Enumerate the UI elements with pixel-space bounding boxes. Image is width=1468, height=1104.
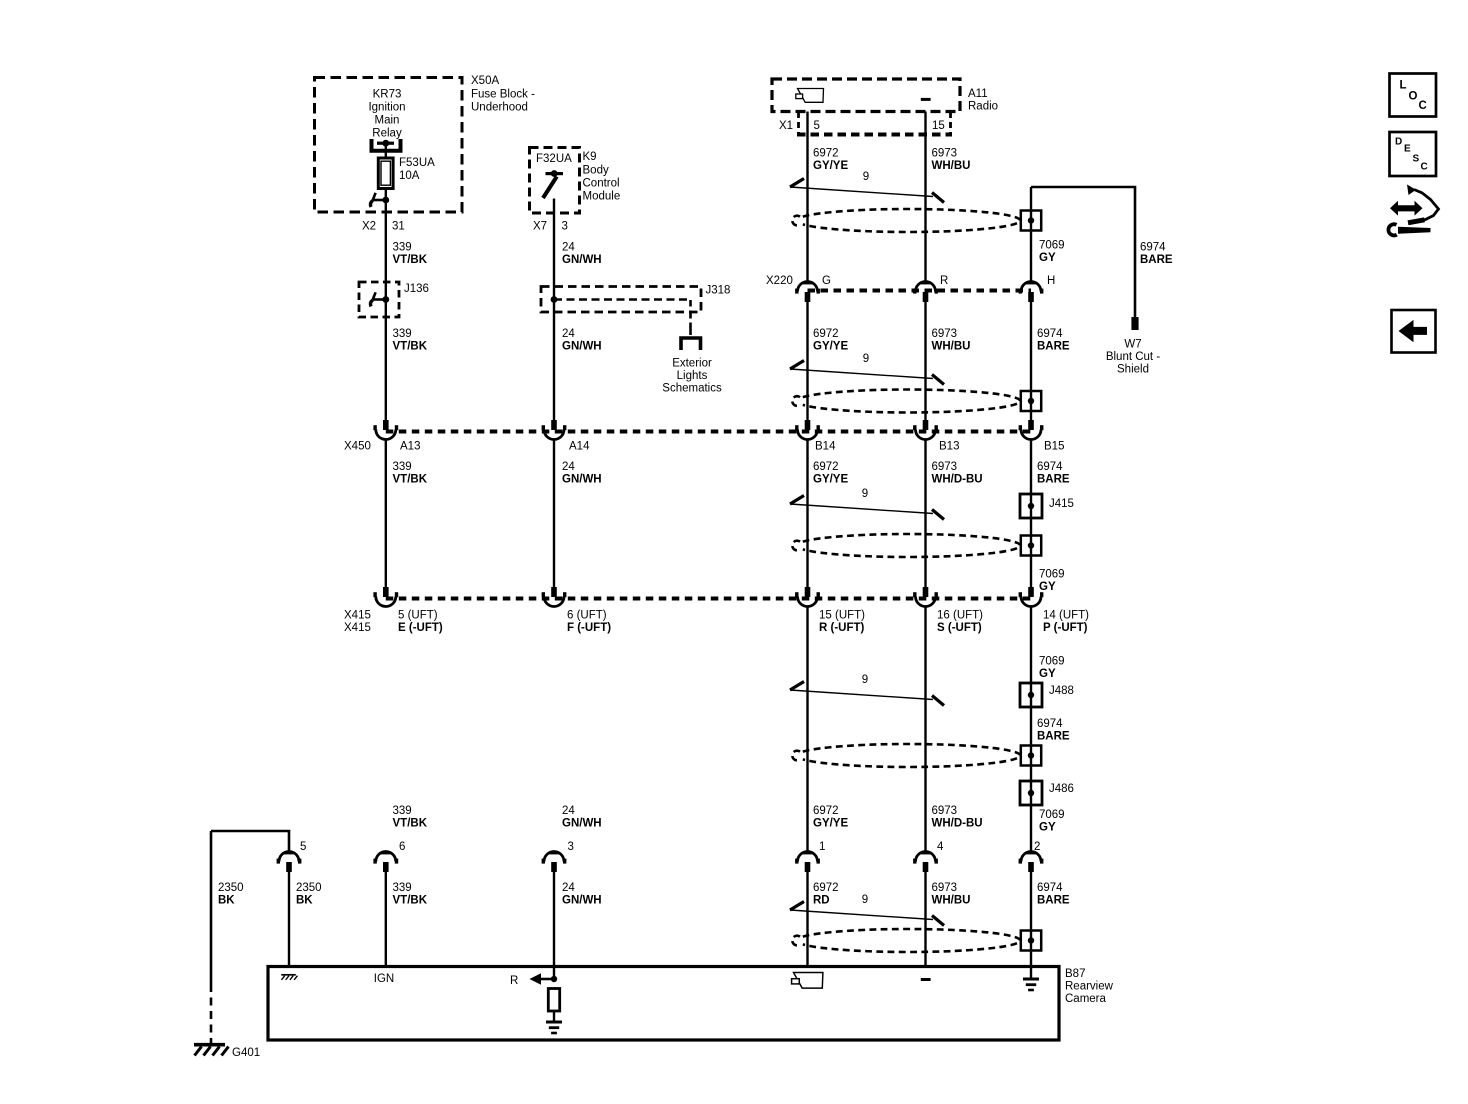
wire label 6974 BARE (below X450): [1037, 461, 1070, 486]
shield drain box 4: [1021, 746, 1041, 766]
splice J136 label: [404, 283, 429, 295]
relay KR73 contact symbol: [372, 139, 401, 151]
svg-text:6974: 6974: [1037, 461, 1063, 473]
pigtail splice symbol below fuse: [370, 193, 385, 207]
svg-text:15: 15: [932, 120, 945, 132]
svg-text:D: D: [1395, 137, 1402, 148]
splice pack J318 label: [706, 285, 731, 297]
svg-text:GY/YE: GY/YE: [813, 341, 848, 353]
wire label 339 VT/BK (upper): [393, 242, 428, 267]
svg-text:J488: J488: [1049, 685, 1074, 697]
svg-text:X220: X220: [766, 275, 793, 287]
svg-text:K9: K9: [583, 151, 597, 163]
splice J136 dashed box: [359, 282, 399, 317]
camera pin 1 label: [819, 841, 825, 853]
twisted pair symbol 2: [790, 361, 944, 385]
svg-text:B87: B87: [1065, 968, 1085, 980]
svg-text:Rearview: Rearview: [1065, 981, 1114, 993]
svg-text:GN/WH: GN/WH: [562, 818, 602, 830]
wire 6972 GY/YE radio to X220: [806, 112, 808, 282]
svg-text:KR73: KR73: [373, 89, 402, 101]
shield drain box 1: [1021, 211, 1041, 231]
twisted pair count label 9 (4): [862, 674, 868, 686]
svg-text:GY: GY: [1039, 252, 1056, 264]
camera pin 5 in-line connector: [277, 852, 302, 873]
svg-text:WH/BU: WH/BU: [932, 160, 971, 172]
svg-text:9: 9: [862, 894, 868, 906]
svg-text:7069: 7069: [1039, 569, 1065, 581]
svg-text:6972: 6972: [813, 328, 839, 340]
svg-text:VT/BK: VT/BK: [393, 341, 428, 353]
svg-text:Shield: Shield: [1117, 364, 1149, 376]
connector X7 pin 3 labels: [533, 221, 568, 233]
svg-text:WH/BU: WH/BU: [932, 341, 971, 353]
sidebar back button: [1392, 310, 1436, 353]
svg-text:VT/BK: VT/BK: [393, 474, 428, 486]
svg-text:WH/D-BU: WH/D-BU: [932, 474, 983, 486]
svg-text:339: 339: [393, 882, 412, 894]
svg-text:24: 24: [562, 242, 575, 254]
rearview camera B87 box: [268, 967, 1059, 1041]
wire 7069 GY / 6974 BARE X415 to camera pin 2: [1030, 607, 1032, 852]
wire 6974 BARE pin 2 to camera: [1030, 872, 1032, 978]
R input arrow: [530, 973, 555, 985]
svg-text:9: 9: [863, 171, 869, 183]
connector X1 dashed box: [797, 112, 952, 135]
svg-text:6973: 6973: [932, 328, 958, 340]
camera display icon in radio: [796, 89, 824, 103]
wire relay to fuse: [385, 143, 387, 158]
splice J488 box: [1020, 683, 1042, 707]
shield drain box 2: [1021, 391, 1041, 411]
blunt cut W7 label: [1106, 339, 1160, 376]
svg-text:R (-UFT): R (-UFT): [819, 622, 865, 634]
wire 7069 GY drain vertical: [1030, 187, 1032, 282]
svg-text:O: O: [1409, 91, 1418, 103]
svg-text:24: 24: [562, 461, 575, 473]
svg-text:6973: 6973: [932, 148, 958, 160]
fuse block X50A dashed outline: [315, 78, 463, 213]
svg-text:Relay: Relay: [372, 128, 402, 140]
wire label 7069 GY (below X415): [1039, 656, 1065, 681]
connector X220 dotted line: [808, 289, 1032, 293]
svg-text:31: 31: [392, 221, 405, 233]
wire 339 VT/BK pin 6 to camera: [385, 872, 387, 967]
svg-text:6973: 6973: [932, 805, 958, 817]
svg-text:7069: 7069: [1039, 240, 1065, 252]
off-page reference text Exterior Lights Schematics: [662, 358, 722, 395]
internal signal ground (resistor): [546, 1021, 562, 1035]
svg-text:X415: X415: [344, 610, 371, 622]
svg-text:5 (UFT): 5 (UFT): [398, 610, 438, 622]
fuse F53UA value label: [399, 157, 435, 182]
svg-text:C: C: [1421, 162, 1428, 173]
splice pack J318 dashed box: [541, 287, 701, 313]
relay KR73 label: [368, 89, 405, 140]
svg-text:A11: A11: [968, 88, 988, 100]
camera icon inside camera box: [792, 973, 823, 989]
wire label 6973 WH/BU (bottom): [932, 882, 971, 907]
R input junction dot: [551, 976, 557, 982]
connector X450 terminal A14: [542, 420, 567, 440]
connector X220 terminal G: [795, 282, 820, 303]
svg-text:14 (UFT): 14 (UFT): [1043, 610, 1089, 622]
svg-text:BARE: BARE: [1037, 474, 1070, 486]
wire BCM to X7 pin 3 (24 GN/WH): [553, 199, 555, 421]
wire 24 GN/WH pin 3 to camera: [553, 872, 555, 979]
svg-text:6974: 6974: [1140, 242, 1166, 254]
svg-text:GN/WH: GN/WH: [562, 895, 602, 907]
wire 6972 RD pin 1 to camera: [806, 872, 808, 967]
splice J486 box: [1020, 781, 1042, 805]
svg-text:5: 5: [300, 841, 306, 853]
svg-text:X415: X415: [344, 622, 371, 634]
ground G401 label: [232, 1047, 260, 1059]
fuse F32UA switch symbol: [543, 170, 563, 198]
svg-text:9: 9: [863, 353, 869, 365]
svg-text:5: 5: [814, 120, 820, 132]
svg-text:3: 3: [562, 221, 568, 233]
shield drain box 3: [1021, 536, 1041, 556]
svg-text:L: L: [1400, 80, 1407, 92]
wire 6972 GY/YE X450 to X415: [806, 439, 808, 587]
svg-text:GN/WH: GN/WH: [562, 341, 602, 353]
svg-text:Radio: Radio: [968, 101, 998, 113]
twisted pair count label 9 (1): [863, 171, 869, 183]
camera pin 3 label: [568, 841, 574, 853]
wire 6973 WH/D-BU X450 to X415: [924, 439, 926, 587]
svg-text:Exterior: Exterior: [672, 358, 712, 370]
connector X220 labels: [766, 275, 1055, 287]
wire label 6972 RD (bottom): [813, 882, 839, 907]
svg-text:10A: 10A: [399, 170, 420, 182]
svg-text:24: 24: [562, 805, 575, 817]
svg-text:15 (UFT): 15 (UFT): [819, 610, 865, 622]
radio A11 dashed box: [772, 79, 960, 112]
wire label 6973 WH/BU (top): [932, 148, 971, 173]
junction dot below fuse: [382, 197, 389, 204]
camera pin 6 in-line connector: [373, 852, 398, 873]
svg-text:Body: Body: [583, 165, 609, 177]
ground G401 symbol: [194, 1045, 229, 1056]
svg-text:Control: Control: [583, 178, 620, 190]
wire label 339 VT/BK (below X450): [393, 461, 428, 486]
wire label 339 VT/BK (bottom): [393, 882, 428, 907]
svg-text:2350: 2350: [218, 882, 244, 894]
svg-text:X50A: X50A: [471, 75, 499, 87]
shield ellipse 2: [792, 390, 1020, 413]
splice J318 dashed drop to off-page: [689, 312, 692, 335]
svg-text:339: 339: [393, 805, 412, 817]
svg-text:3: 3: [568, 841, 574, 853]
IGN input label: [374, 973, 394, 985]
wire label 6972 GY/YE (top): [813, 148, 848, 173]
splice J486 label: [1049, 783, 1074, 795]
sidebar harness routing icon: [1388, 185, 1438, 236]
svg-text:6974: 6974: [1037, 882, 1063, 894]
camera pin 3 in-line connector: [542, 852, 567, 873]
svg-text:A14: A14: [569, 441, 590, 453]
svg-text:WH/D-BU: WH/D-BU: [932, 818, 983, 830]
svg-text:GY/YE: GY/YE: [813, 474, 848, 486]
svg-text:2: 2: [1034, 841, 1040, 853]
connector X220 terminal H: [1019, 282, 1044, 303]
shield ellipse 1: [792, 209, 1020, 232]
svg-text:X450: X450: [344, 441, 371, 453]
fuse F32UA label: [536, 153, 572, 165]
connector X450 labels: [344, 441, 1064, 453]
svg-text:G: G: [822, 275, 831, 287]
shield ellipse 3: [792, 534, 1020, 557]
svg-text:A13: A13: [400, 441, 420, 453]
svg-text:6972: 6972: [813, 461, 839, 473]
connector X220 terminal R: [913, 282, 938, 303]
svg-text:GY: GY: [1039, 581, 1056, 593]
connector X450 dotted line: [386, 430, 1031, 434]
wire label 24 GN/WH (above camera pin 3): [562, 805, 602, 830]
wire label 6972 GY/YE (below X450): [813, 461, 848, 486]
shield drain box 5: [1021, 931, 1041, 951]
svg-text:GY/YE: GY/YE: [813, 818, 848, 830]
shield ellipse 5: [792, 929, 1020, 952]
svg-text:Lights: Lights: [677, 370, 708, 382]
connector X415 dotted line: [386, 597, 1031, 601]
connector X415 labels: [344, 610, 1089, 635]
svg-text:F (-UFT): F (-UFT): [567, 622, 611, 634]
svg-text:R: R: [940, 275, 948, 287]
svg-text:C: C: [1419, 100, 1427, 112]
wire label 6974 BARE (bottom): [1037, 882, 1070, 907]
connector X415 terminal F: [542, 587, 567, 607]
svg-text:Schematics: Schematics: [662, 383, 722, 395]
svg-text:RD: RD: [813, 895, 830, 907]
wire label 6973 WH/BU (below X220): [932, 328, 971, 353]
svg-text:Blunt Cut -: Blunt Cut -: [1106, 351, 1160, 363]
wire shield drain to W7: [1031, 187, 1135, 317]
wire label 339 VT/BK (above camera pin 6): [393, 805, 428, 830]
svg-text:GY: GY: [1039, 668, 1056, 680]
splice J415 box: [1020, 494, 1042, 518]
splice J318 dashed bus: [554, 300, 691, 313]
svg-text:VT/BK: VT/BK: [393, 254, 428, 266]
camera pin 4 in-line connector: [913, 852, 938, 873]
connector X2 pin 31 labels: [362, 221, 405, 233]
svg-text:24: 24: [562, 882, 575, 894]
connector X415 terminal P: [1019, 587, 1044, 607]
svg-text:9: 9: [862, 674, 868, 686]
wire label 7069 GY (above X415): [1039, 569, 1065, 594]
twisted pair count label 9 (3): [862, 488, 868, 500]
svg-text:BARE: BARE: [1037, 895, 1070, 907]
svg-text:6973: 6973: [932, 461, 958, 473]
wire 6974 BARE X220 to X450: [1030, 302, 1032, 420]
svg-text:BARE: BARE: [1140, 254, 1173, 266]
twisted pair symbol 5: [790, 902, 944, 926]
svg-text:6972: 6972: [813, 882, 839, 894]
BCM K9 dashed box: [530, 148, 580, 214]
wire resistor to internal ground: [553, 1011, 555, 1021]
wire 2350 BK pin 5 to camera: [288, 872, 290, 967]
camera pin 4 label: [937, 841, 944, 853]
svg-text:6972: 6972: [813, 148, 839, 160]
svg-text:GY: GY: [1039, 822, 1056, 834]
connector X415 terminal S: [913, 587, 938, 607]
sidebar LOC button: [1390, 74, 1437, 117]
svg-text:6: 6: [399, 841, 405, 853]
BCM K9 title: [583, 151, 621, 203]
sidebar DESC button: [1390, 132, 1437, 176]
wire 24 GN/WH X450 to X415: [553, 439, 555, 587]
twisted pair count label 9 (2): [863, 353, 869, 365]
svg-text:B15: B15: [1044, 441, 1064, 453]
R input label: [510, 975, 518, 987]
svg-text:X1: X1: [779, 120, 793, 132]
svg-text:6973: 6973: [932, 882, 958, 894]
svg-text:BK: BK: [218, 895, 235, 907]
wire label 24 GN/WH (upper): [562, 242, 602, 267]
svg-text:16 (UFT): 16 (UFT): [937, 610, 983, 622]
svg-text:R: R: [510, 975, 518, 987]
wire label 24 GN/WH (below X450): [562, 461, 602, 486]
wire 6973 WH/BU pin 4 to camera: [924, 872, 926, 967]
splice J318 junction dot: [551, 296, 558, 303]
svg-text:X2: X2: [362, 221, 376, 233]
twisted pair symbol 4: [790, 682, 944, 706]
svg-text:VT/BK: VT/BK: [393, 895, 428, 907]
camera pin 6 label: [399, 841, 405, 853]
svg-text:VT/BK: VT/BK: [393, 818, 428, 830]
wire 6973 WH/D-BU X415 to camera pin 4: [924, 607, 926, 852]
svg-text:G401: G401: [232, 1047, 260, 1059]
svg-text:Ignition: Ignition: [368, 102, 405, 114]
svg-text:2350: 2350: [296, 882, 322, 894]
svg-text:GN/WH: GN/WH: [562, 254, 602, 266]
wire label 2350 BK (right): [296, 882, 322, 907]
fuse F53UA symbol: [378, 158, 393, 189]
svg-text:1: 1: [819, 841, 825, 853]
connector X450 terminal A13: [373, 420, 398, 440]
svg-text:4: 4: [937, 841, 944, 853]
wire label 24 GN/WH (bottom): [562, 882, 602, 907]
connector X450 terminal B15: [1019, 420, 1044, 440]
wire 6972 GY/YE X415 to camera pin 1: [806, 607, 808, 852]
wire label 2350 BK (left): [218, 882, 244, 907]
wire 339 VT/BK X450 to X415: [385, 439, 387, 587]
svg-text:24: 24: [562, 328, 575, 340]
off-page reference bracket to Exterior Lights: [681, 338, 701, 350]
wire 6973 WH/BU X220 to X450: [924, 302, 926, 420]
camera pin 1 in-line connector: [795, 852, 820, 873]
svg-text:F32UA: F32UA: [536, 153, 572, 165]
wire label 6974 BARE (below X220): [1037, 328, 1070, 353]
twisted pair count label 9 (5): [862, 894, 868, 906]
svg-text:J486: J486: [1049, 783, 1074, 795]
svg-text:6 (UFT): 6 (UFT): [567, 610, 607, 622]
svg-text:J415: J415: [1049, 498, 1074, 510]
svg-text:339: 339: [393, 242, 412, 254]
splice J415 label: [1049, 498, 1074, 510]
svg-text:339: 339: [393, 328, 412, 340]
svg-text:Underhood: Underhood: [471, 102, 528, 114]
svg-text:7069: 7069: [1039, 809, 1065, 821]
fuse block X50A title text: [471, 75, 535, 114]
svg-text:S: S: [1413, 154, 1420, 165]
svg-text:E (-UFT): E (-UFT): [398, 622, 443, 634]
svg-text:BK: BK: [296, 895, 313, 907]
wire label 7069 GY (below J486): [1039, 809, 1065, 834]
svg-text:6972: 6972: [813, 805, 839, 817]
connector X415 terminal R: [795, 587, 820, 607]
svg-text:6974: 6974: [1037, 328, 1063, 340]
twisted pair symbol 3: [790, 496, 944, 520]
wire label 6973 WH/D-BU (below X450): [932, 461, 983, 486]
wire label 6973 WH/D-BU (above camera pin 4): [932, 805, 983, 830]
radio A11 title: [968, 88, 998, 113]
svg-text:P (-UFT): P (-UFT): [1043, 622, 1088, 634]
minus terminal in radio: [921, 98, 931, 101]
ground wire 2350 BK from G401: [211, 831, 289, 1043]
svg-text:9: 9: [862, 488, 868, 500]
connector X415 terminal E: [373, 587, 398, 607]
svg-text:Fuse Block -: Fuse Block -: [471, 89, 535, 101]
camera pin 5 label: [300, 841, 306, 853]
internal resistor: [548, 989, 559, 1012]
splice J488 label: [1049, 685, 1074, 697]
svg-text:Module: Module: [583, 191, 621, 203]
svg-text:E: E: [1404, 144, 1411, 155]
svg-text:J318: J318: [706, 285, 731, 297]
signal ground inside camera box (shield): [1023, 978, 1039, 992]
svg-text:S (-UFT): S (-UFT): [937, 622, 982, 634]
svg-text:GN/WH: GN/WH: [562, 474, 602, 486]
splice J136 junction dot: [382, 296, 389, 303]
svg-text:W7: W7: [1124, 339, 1141, 351]
svg-text:H: H: [1047, 275, 1055, 287]
connector X1 labels: [779, 120, 945, 132]
camera pin 2 label: [1034, 841, 1040, 853]
minus terminal inside camera box: [921, 978, 931, 981]
svg-text:B14: B14: [815, 441, 836, 453]
camera pin 2 in-line connector: [1019, 852, 1044, 873]
svg-text:GY/YE: GY/YE: [813, 160, 848, 172]
svg-text:F53UA: F53UA: [399, 157, 435, 169]
wire label 24 GN/WH (below J318): [562, 328, 602, 353]
wire fuse to X2 pin 31 (339 VT/BK): [385, 190, 387, 421]
svg-text:IGN: IGN: [374, 973, 394, 985]
svg-text:Camera: Camera: [1065, 993, 1107, 1005]
wire 6974 BARE X450 to X415: [1030, 439, 1032, 587]
wire 6973 WH/BU radio to X220: [924, 112, 926, 282]
wire 6972 GY/YE X220 to X450: [806, 302, 808, 420]
svg-text:6974: 6974: [1037, 718, 1063, 730]
svg-text:BARE: BARE: [1037, 341, 1070, 353]
shield ellipse 4: [792, 744, 1020, 767]
svg-text:339: 339: [393, 461, 412, 473]
splice J136 pigtail: [370, 292, 385, 306]
wire label 6972 GY/YE (above camera pin 1): [813, 805, 848, 830]
twisted pair symbol 1: [790, 179, 944, 203]
wire label 7069 GY (row 1): [1039, 240, 1065, 265]
svg-text:WH/BU: WH/BU: [932, 895, 971, 907]
wire label 339 VT/BK (below J136): [393, 328, 428, 353]
svg-text:BARE: BARE: [1037, 731, 1070, 743]
svg-text:Main: Main: [375, 115, 400, 127]
blunt cut W7 stub: [1131, 317, 1138, 330]
svg-text:X7: X7: [533, 221, 547, 233]
connector X450 terminal B14: [795, 420, 820, 440]
connector X450 terminal B13: [913, 420, 938, 440]
svg-text:J136: J136: [404, 283, 429, 295]
